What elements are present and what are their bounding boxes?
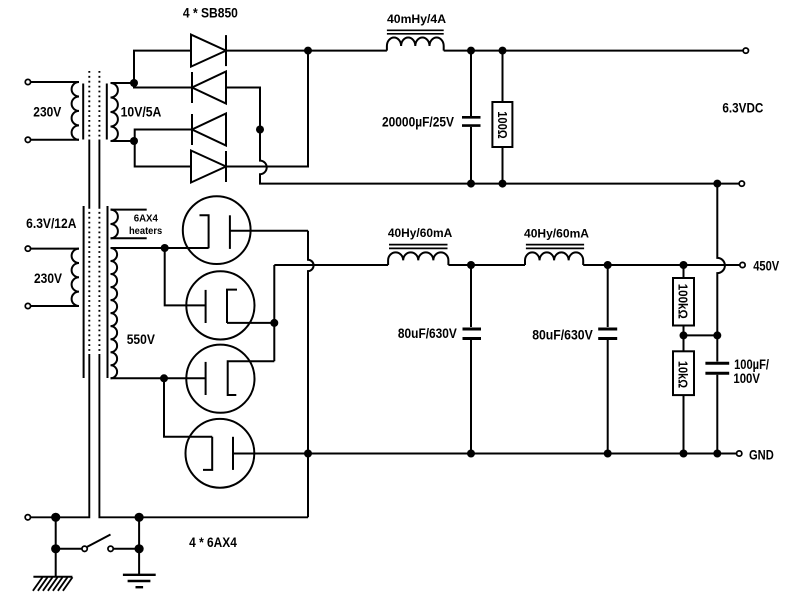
wire 6.3V rail left segment	[226, 50, 387, 52]
wire 450V rail segment 3	[583, 264, 739, 266]
label 230V (primary 1)	[33, 104, 61, 119]
wire primary2 bottom lead	[31, 305, 79, 307]
label 100k	[675, 284, 689, 319]
transformer secondary winding 10V/5A	[111, 83, 118, 141]
svg-text:6.3V/12A: 6.3V/12A	[26, 216, 77, 231]
node earth line right	[135, 513, 144, 522]
label 550V	[127, 332, 155, 347]
svg-text:heaters: heaters	[129, 226, 163, 237]
wire 550V bottom tap to V3 anode	[111, 377, 206, 379]
label 6AX4	[134, 213, 159, 224]
wire gnd rail	[233, 453, 736, 455]
svg-text:10kΩ: 10kΩ	[676, 361, 690, 388]
node C3 top	[604, 261, 612, 269]
wire secondary1 bottom tap	[111, 140, 135, 142]
wire secondary1 top tap	[111, 82, 135, 84]
tube V1 anode plate	[229, 215, 231, 249]
label 4 * SB850	[183, 4, 238, 20]
wire 450V rail segment 2	[448, 264, 525, 266]
svg-text:450V: 450V	[753, 259, 779, 274]
node bridge plus junction	[304, 47, 312, 55]
svg-text:40Hy/60mA: 40Hy/60mA	[388, 226, 453, 240]
label 450V	[753, 259, 779, 274]
wire 450V takeoff riser	[273, 265, 275, 323]
wire 6.3V return drop with hopover at 450V rail	[717, 184, 725, 336]
wire 450V rail segment 1	[274, 264, 388, 266]
tube V1 (6AX4) envelope	[183, 196, 251, 264]
svg-text:GND: GND	[749, 447, 774, 462]
transformer core line left (screen to mains earth)	[31, 71, 90, 517]
svg-text:40Hy/60mA: 40Hy/60mA	[524, 227, 589, 241]
diode D1 (SB850 top, pointing right)	[191, 35, 226, 67]
node V2/V3 cathode junction	[270, 319, 278, 327]
node switch left	[51, 544, 60, 553]
tube V3 cathode	[228, 361, 275, 395]
terminal 450V	[740, 262, 745, 267]
wire to switch contact left	[56, 548, 82, 550]
resistor R3 10k	[673, 335, 694, 453]
label 10V/5A	[121, 105, 162, 120]
label GND	[749, 447, 774, 462]
transformer primary winding 2 (230V bottom)	[72, 249, 79, 306]
capacitor C1 20000uF/25V	[462, 51, 481, 184]
transformer heater winding (6.3V)	[111, 210, 118, 239]
terminal primary2 bottom	[25, 303, 30, 308]
wire 550V top tap to V1 cathode	[111, 247, 209, 249]
svg-text:10V/5A: 10V/5A	[121, 105, 162, 120]
wire minus bus down with hopover at 450V rail	[308, 231, 314, 518]
diode D3 (SB850, pointing left)	[192, 114, 226, 146]
wire primary1 top lead	[31, 81, 79, 83]
node R1 bottom	[499, 180, 507, 188]
transformer primary winding 1 (230V top)	[72, 82, 79, 140]
wire chassis drop	[138, 517, 140, 549]
node C1 bottom	[467, 180, 475, 188]
tube V3 anode plate	[205, 362, 207, 395]
node gnd C2	[467, 450, 475, 458]
svg-text:6.3VDC: 6.3VDC	[722, 101, 763, 116]
node R1 top	[499, 47, 507, 55]
resistor R2 100k	[673, 265, 694, 335]
wire tap2 to D3 and D4	[135, 130, 192, 167]
label 40mHy/4A	[387, 12, 446, 26]
wire top tap down to V2 anode	[165, 248, 206, 305]
label C3 80uF/630V	[532, 328, 593, 343]
switch lever	[87, 535, 110, 547]
switch contact left	[82, 546, 87, 551]
tube V4 anode plate	[232, 437, 234, 470]
svg-text:4 * SB850: 4 * SB850	[183, 4, 238, 20]
wire earth left drop	[55, 517, 57, 549]
node minus bus at gnd rail	[304, 450, 312, 458]
capacitor C2 80uF/630V	[463, 265, 482, 454]
tube V2 cathode	[227, 290, 237, 323]
tube V2 (6AX4) envelope	[186, 271, 254, 339]
wire primary2 top lead	[31, 248, 79, 250]
wire from switch contact right	[114, 548, 140, 550]
terminal primary1 top	[25, 79, 30, 84]
node 6.3V return to HV divider	[713, 180, 721, 188]
wire D4 cathode up to plus node	[226, 51, 308, 167]
capacitor C3 80uF/630V	[598, 265, 617, 454]
wire V1 anode to minus bus	[230, 230, 308, 232]
transformer core bar lower-left	[83, 206, 85, 378]
transformer secondary winding 550V	[111, 248, 118, 378]
node 550V bottom junction	[160, 374, 168, 382]
node divider mid right	[713, 331, 721, 339]
capacitor C4 100uF/100V	[705, 335, 729, 453]
chassis ground symbol	[123, 549, 156, 587]
diode D4 (SB850 bottom, pointing right)	[191, 151, 226, 183]
svg-text:100kΩ: 100kΩ	[675, 284, 689, 319]
terminal 6.3VDC minus	[739, 181, 744, 186]
node C1 top	[467, 47, 475, 55]
terminal mains earth	[25, 515, 30, 520]
label 6.3VDC	[722, 101, 763, 116]
node earth line left	[51, 513, 60, 522]
wire bridge minus with hopover, to 6.3V return rail	[260, 130, 739, 184]
node tap2 junction	[130, 137, 138, 145]
label L2 40Hy/60mA	[388, 226, 453, 240]
wire V4 anode to gnd rail	[233, 453, 308, 455]
tube V4 cathode	[203, 437, 212, 470]
svg-text:100V: 100V	[733, 371, 760, 386]
label 20000uF/25V	[382, 114, 454, 129]
transformer core bar upper-left	[82, 84, 84, 140]
wire divider mid link	[684, 334, 718, 336]
wire 6.3V rail right segment	[444, 50, 743, 52]
wire heater winding top lead	[111, 209, 147, 211]
resistor R1 100ohm	[492, 51, 512, 184]
svg-text:550V: 550V	[127, 332, 155, 347]
svg-text:230V: 230V	[33, 104, 61, 119]
tube V2 anode plate	[205, 290, 207, 323]
label 4 * 6AX4	[189, 535, 237, 550]
wire primary1 bottom lead	[31, 139, 79, 141]
diode D2 (SB850, pointing left)	[192, 72, 226, 104]
inductor L3 40Hy/60mA	[525, 245, 584, 265]
wire D1 anode from tap1	[134, 51, 192, 88]
label C2 80uF/630V	[398, 326, 457, 341]
node gnd C3	[604, 450, 612, 458]
node divider mid left	[680, 331, 688, 339]
terminal GND	[737, 451, 742, 456]
transformer core bar upper-right	[106, 84, 108, 140]
tube V3 (6AX4) envelope	[186, 345, 254, 413]
transformer core bar lower-right	[107, 206, 109, 378]
svg-text:6AX4: 6AX4	[134, 213, 159, 224]
svg-text:4 * 6AX4: 4 * 6AX4	[189, 535, 237, 550]
node switch right	[135, 544, 144, 553]
transformer core line right (screen to circuit gnd)	[99, 71, 308, 517]
tube V1 cathode	[200, 215, 209, 248]
label 10k	[676, 361, 690, 388]
switch contact right	[108, 546, 113, 551]
wire D2 anode down to D3 anode	[226, 88, 260, 130]
tube V4 (6AX4) envelope	[186, 419, 255, 488]
wire bottom tap down to V4 cathode	[164, 378, 212, 437]
label heaters	[129, 226, 163, 237]
node D2/D3 anode junction	[256, 126, 264, 134]
inductor L1 40mHy/4A	[387, 30, 444, 50]
terminal 6.3VDC plus	[743, 48, 748, 53]
node C2 top	[467, 261, 475, 269]
label 100 ohm	[495, 111, 509, 139]
label 100uF line2	[733, 371, 760, 386]
label 230V (primary 2)	[34, 271, 62, 286]
node gnd C4	[713, 450, 721, 458]
label 100uF line1	[734, 357, 769, 372]
terminal primary1 bottom	[25, 137, 30, 142]
svg-text:40mHy/4A: 40mHy/4A	[387, 12, 446, 26]
node divider top	[680, 261, 688, 269]
svg-text:230V: 230V	[34, 271, 62, 286]
wire cathode junction down to V3	[273, 323, 275, 361]
svg-text:100Ω: 100Ω	[495, 111, 509, 139]
label 6.3V/12A	[26, 216, 77, 231]
svg-text:20000µF/25V: 20000µF/25V	[382, 114, 454, 129]
terminal primary2 top	[25, 246, 30, 251]
svg-text:80uF/630V: 80uF/630V	[532, 328, 593, 343]
wire V2 cathode to 450V takeoff	[227, 322, 274, 324]
wire heater winding bottom lead	[111, 237, 147, 239]
svg-text:100µF/: 100µF/	[734, 357, 769, 372]
node 550V top junction	[161, 244, 169, 252]
inductor L2 40Hy/60mA	[388, 245, 448, 265]
svg-text:80uF/630V: 80uF/630V	[398, 326, 457, 341]
node gnd divider	[680, 450, 688, 458]
node tap1 junction	[130, 79, 138, 87]
label L3 40Hy/60mA	[524, 227, 589, 241]
earth ground symbol (hatched)	[33, 549, 73, 591]
